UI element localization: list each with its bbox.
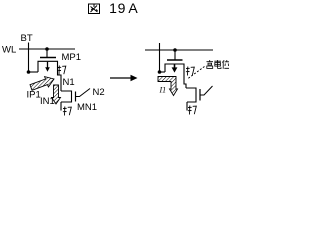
wire WL (word line, right circuit) — [145, 49, 213, 51]
node junction dot on WL at MP gate (right) — [173, 48, 177, 52]
figure title kanji ZU (図) — [89, 4, 100, 14]
transistor MP1 channel hump — [38, 61, 58, 72]
current arrow IP1 (hatched block arrow, tilted right-up) — [30, 77, 54, 91]
leak mark 17 (below MN1) — [63, 107, 71, 116]
transistor MP gate bar (right) — [167, 59, 183, 61]
wire storage node (right MP drain down to MN) — [184, 72, 186, 88]
current arrow I1 (hatched L-shaped block arrow, right circuit) — [158, 77, 178, 96]
node junction dot on WL at MP1 gate — [45, 47, 49, 51]
node junction dot BT/source — [27, 70, 31, 74]
label 高電位 (high potential) kanji strokes — [207, 60, 230, 69]
transistor MP channel hump (right) — [165, 64, 184, 72]
current arrow IN1 (hatched block arrow, down) — [52, 85, 61, 104]
svg-text:N1: N1 — [63, 77, 75, 88]
wire BT (vertical bit line, right circuit) — [159, 43, 161, 72]
svg-text:A: A — [128, 0, 138, 16]
svg-text:MP1: MP1 — [62, 52, 82, 63]
svg-text:WL: WL — [2, 45, 16, 56]
leak mark 17 (at MP1 drain) — [57, 66, 65, 75]
wire MP source to BT (right) — [160, 71, 166, 73]
svg-text:1: 1 — [109, 0, 117, 16]
transistor MP channel arrow (right, down) — [174, 65, 176, 69]
transition arrow (between circuits) — [110, 77, 131, 79]
wire WL (word line, left circuit) — [19, 48, 75, 50]
svg-text:IN1: IN1 — [40, 96, 55, 107]
wire MN source stub (right) — [186, 102, 188, 111]
transistor MN gate bar (right) — [199, 89, 201, 101]
transistor MP1 gate bar — [40, 57, 56, 59]
svg-text:I1: I1 — [159, 86, 167, 95]
dashed leader line from 高電位 to storage node — [188, 67, 205, 79]
wire MP1 source to BT — [29, 71, 39, 73]
wire MN gate lead diagonal (right) — [200, 86, 213, 95]
svg-text:MN1: MN1 — [77, 102, 97, 113]
transistor MN channel hump (right, sideways) — [186, 88, 196, 102]
wire MP gate lead (right) — [174, 50, 176, 60]
svg-text:BT: BT — [21, 33, 33, 44]
leak mark 17 (below right MN) — [188, 106, 196, 115]
leak mark 17 (at right MP drain) — [186, 67, 194, 76]
transistor MN1 gate bar — [75, 92, 77, 102]
svg-text:9: 9 — [118, 0, 126, 16]
wire MN1 source stub — [60, 102, 62, 111]
svg-text:IP1: IP1 — [27, 90, 41, 101]
svg-text:N2: N2 — [93, 87, 105, 98]
node junction dot BT/source (right) — [158, 70, 162, 74]
transistor MN1 channel hump (sideways) — [61, 91, 72, 102]
wire MP1 gate lead — [46, 49, 48, 57]
wire BT (vertical bit line, left circuit) — [28, 43, 30, 73]
wire node N1 (MP1 drain down to MN1) — [58, 72, 62, 91]
transistor MP1 channel arrow (down) — [47, 62, 49, 68]
wire MN1 gate lead to N2 — [76, 89, 91, 97]
